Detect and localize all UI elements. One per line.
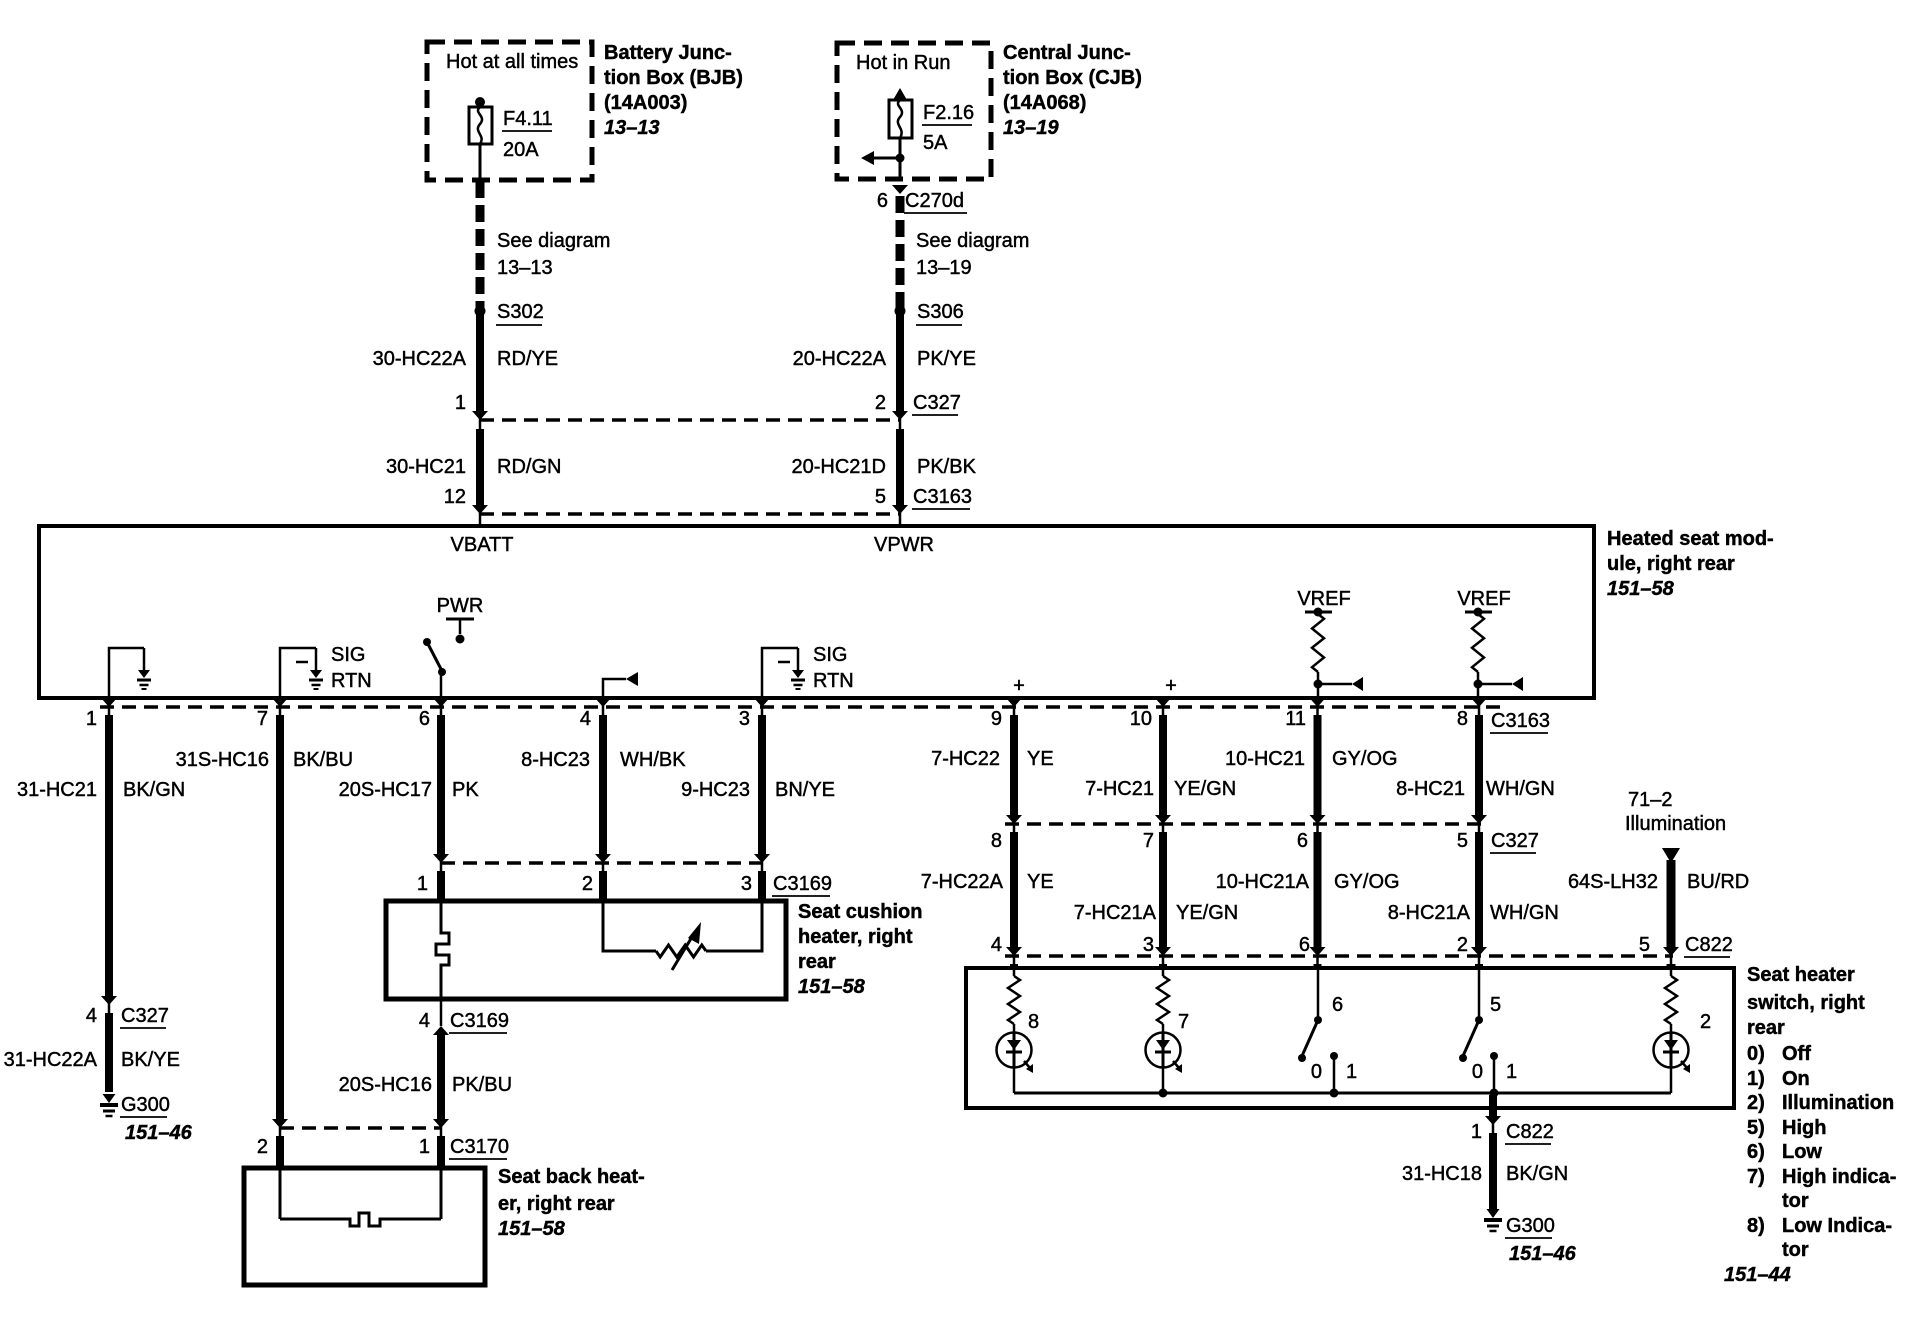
svg-text:6: 6 [1332,994,1343,1016]
svg-text:C3163: C3163 [913,486,972,508]
arrow pin wire into C3163 at x=1479 [1471,698,1487,707]
svg-text:F4.11: F4.11 [503,108,553,130]
wire label 30-HC21 RD/GN [386,456,562,478]
svg-text:VBATT: VBATT [451,534,514,556]
svg-text:13–13: 13–13 [604,117,660,139]
label See diagram 13-13 [497,230,610,279]
svg-text:F2.16: F2.16 [923,102,974,124]
wire label 8-HC21A WH/GN [1388,902,1559,924]
fuse F2.16 top arrow [893,88,907,100]
svg-text:13–13: 13–13 [497,257,553,279]
wire label 7-HC22 YE [931,748,1054,770]
svg-text:Hot at all times: Hot at all times [446,51,578,73]
svg-text:PK: PK [452,779,479,801]
svg-text:31S-HC16: 31S-HC16 [176,749,269,771]
svg-text:0: 0 [1472,1061,1483,1083]
svg-text:1: 1 [419,1136,430,1158]
svg-text:8-HC21A: 8-HC21A [1388,902,1471,924]
wire label 64S-LH32 BU/RD [1568,871,1749,893]
svg-text:VREF: VREF [1297,588,1350,610]
svg-text:Seat heater: Seat heater [1747,964,1855,986]
wire S306 to C327 pin2 [896,311,904,429]
svg-text:Low Indica-: Low Indica- [1782,1215,1892,1237]
wire pin6 module to cushion heater [433,697,449,901]
svg-text:G300: G300 [121,1094,170,1116]
label Seat cushion heater right rear 151-58 [798,901,922,998]
svg-text:PWR: PWR [437,595,484,617]
svg-text:(14A068): (14A068) [1003,92,1086,114]
svg-text:See diagram: See diagram [916,230,1029,252]
label Hot in Run [856,52,951,74]
ground G300 right [1484,1209,1577,1265]
svg-text:20S-HC17: 20S-HC17 [339,779,432,801]
cushion thermistor loop [603,903,762,957]
svg-text:WH/BK: WH/BK [620,749,686,771]
svg-text:6): 6) [1747,1141,1765,1163]
svg-text:Heated seat mod-: Heated seat mod- [1607,528,1774,550]
svg-text:2: 2 [1700,1011,1711,1033]
svg-text:7): 7) [1747,1166,1765,1188]
wire S302 to C327 pin1 [476,311,484,429]
wire label 30-HC22A RD/YE [373,348,559,370]
svg-text:7-HC21: 7-HC21 [1085,778,1154,800]
seat back heater box [244,1168,485,1285]
svg-text:tion Box (CJB): tion Box (CJB) [1003,67,1142,89]
svg-text:31-HC22A: 31-HC22A [4,1049,98,1071]
wire label 31-HC22A BK/YE [4,1049,180,1071]
svg-text:SIG: SIG [813,644,847,666]
label Hot at all times [446,51,578,73]
svg-text:6: 6 [1297,830,1308,852]
module internal SIG RTN at pin 3 [762,644,854,696]
svg-text:BK/GN: BK/GN [1506,1163,1568,1185]
svg-text:12: 12 [444,486,466,508]
svg-text:151–58: 151–58 [798,976,866,998]
svg-text:9: 9 [991,708,1002,730]
wire CJB to S306 dashed thick [896,196,905,308]
svg-text:31-HC21: 31-HC21 [17,779,97,801]
svg-text:2: 2 [257,1136,268,1158]
svg-text:151–46: 151–46 [1509,1243,1577,1265]
wire module pin to switch at x=1479 [1471,697,1487,968]
svg-text:High: High [1782,1117,1826,1139]
svg-text:5: 5 [1457,830,1468,852]
wire label 31-HC18 BK/GN [1402,1163,1568,1185]
connector row C3170 (pins 2/1) [257,1128,509,1159]
wire module pin to switch at x=1317.5 [1310,697,1326,968]
svg-text:WH/GN: WH/GN [1486,778,1555,800]
svg-text:1: 1 [417,873,428,895]
svg-text:YE/GN: YE/GN [1176,902,1238,924]
arrow pin wire into C3163 at x=762 [754,698,770,707]
svg-text:10: 10 [1130,708,1152,730]
wire label 10-HC21A GY/OG [1216,871,1400,893]
svg-text:+: + [1165,675,1177,697]
switch common bus [1014,1089,1671,1098]
svg-text:13–19: 13–19 [916,257,972,279]
svg-text:8: 8 [991,830,1002,852]
wire pin1 module to G300 [101,697,117,1092]
svg-text:RTN: RTN [813,670,854,692]
svg-text:C3163: C3163 [1491,710,1550,732]
svg-text:1): 1) [1747,1068,1765,1090]
svg-text:Illumination: Illumination [1625,813,1726,835]
svg-text:High indica-: High indica- [1782,1166,1896,1188]
svg-text:Seat back heat-: Seat back heat- [498,1166,645,1188]
svg-text:PK/BK: PK/BK [917,456,977,478]
svg-text:+: + [1013,675,1025,697]
svg-text:30-HC21: 30-HC21 [386,456,466,478]
svg-text:151–58: 151–58 [1607,578,1675,600]
switch lamp 2 (illumination) [1654,970,1712,1093]
svg-text:7: 7 [1178,1011,1189,1033]
seat heater switch box [966,968,1734,1108]
svg-text:1: 1 [455,392,466,414]
connector row C3163 (pins 12/5) [444,486,972,514]
svg-text:0): 0) [1747,1043,1765,1065]
svg-text:switch, right: switch, right [1747,992,1865,1014]
svg-text:GY/OG: GY/OG [1334,871,1400,893]
svg-text:S302: S302 [497,301,544,323]
wire label 7-HC21 YE/GN [1085,778,1236,800]
svg-text:2: 2 [1457,934,1468,956]
CJB internal branch arrow left [861,151,905,165]
heated seat module box [39,526,1594,698]
illumination feed wire 64S-LH32 [1662,848,1680,968]
switch contact 6 (low) [1298,970,1357,1093]
wire label 7-HC21A YE/GN [1074,902,1239,924]
label See diagram 13-19 [916,230,1029,279]
svg-text:7-HC22: 7-HC22 [931,748,1000,770]
svg-text:C3169: C3169 [450,1010,509,1032]
svg-text:rear: rear [1747,1017,1785,1039]
connector row C822 (pins 4/3/6/2/5) [991,934,1733,957]
svg-text:er, right rear: er, right rear [498,1193,615,1215]
svg-text:ule, right rear: ule, right rear [1607,553,1735,575]
module pin name VPWR [874,534,934,556]
svg-text:YE: YE [1027,748,1054,770]
module internal plus mark at pin 9 [1013,675,1025,697]
svg-text:See diagram: See diagram [497,230,610,252]
svg-text:30-HC22A: 30-HC22A [373,348,467,370]
wire module pin to switch at x=1163 [1155,697,1171,968]
svg-text:C3169: C3169 [773,873,832,895]
wire label 31-HC21 BK/GN [17,779,185,801]
arrow pin wire into C3163 at x=603 [595,698,611,707]
svg-text:5): 5) [1747,1117,1765,1139]
svg-text:151–44: 151–44 [1724,1264,1791,1286]
svg-text:GY/OG: GY/OG [1332,748,1398,770]
svg-text:7: 7 [1143,830,1154,852]
svg-text:7-HC21A: 7-HC21A [1074,902,1157,924]
svg-text:Illumination: Illumination [1782,1092,1894,1114]
connector row C3163 below module [86,707,1550,733]
svg-text:5A: 5A [923,132,948,154]
wire fuse F2.16 down inside CJB [899,138,902,179]
svg-text:31-HC18: 31-HC18 [1402,1163,1482,1185]
svg-text:8): 8) [1747,1215,1765,1237]
arrow pin wire into C3163 at x=1014 [1006,698,1022,707]
svg-text:tor: tor [1782,1190,1809,1212]
svg-text:1: 1 [1506,1061,1517,1083]
thermistor arrow [672,922,701,970]
svg-text:10-HC21A: 10-HC21A [1216,871,1310,893]
svg-text:2: 2 [582,873,593,895]
svg-text:64S-LH32: 64S-LH32 [1568,871,1658,893]
module internal plus mark at pin 10 [1165,675,1177,697]
svg-text:13–19: 13–19 [1003,117,1059,139]
label Heated seat module right rear 151-58 [1607,528,1774,600]
svg-text:C3170: C3170 [450,1136,509,1158]
svg-text:7-HC22A: 7-HC22A [921,871,1004,893]
wire C327 to C3163 pin5 [896,429,904,526]
svg-text:heater, right: heater, right [798,926,913,948]
arrow pin wire into C3163 at x=1317.5 [1310,698,1326,707]
wire label 8-HC21 WH/GN [1396,778,1555,800]
svg-text:RD/YE: RD/YE [497,348,558,370]
svg-text:Off: Off [1782,1043,1811,1065]
Battery Junction Box dashed enclosure [427,42,592,180]
svg-text:C327: C327 [121,1005,169,1027]
wire label 20-HC21D PK/BK [792,456,977,478]
svg-text:Hot in Run: Hot in Run [856,52,951,74]
svg-text:PK/BU: PK/BU [452,1074,512,1096]
svg-text:tion Box (BJB): tion Box (BJB) [604,67,743,89]
module internal SIG RTN at pin 7 [280,644,372,696]
svg-text:SIG: SIG [331,644,365,666]
module internal ground at pin 1 [109,648,151,696]
svg-text:4: 4 [86,1005,97,1027]
wire label 8-HC23 WH/BK [521,749,686,771]
svg-text:C327: C327 [913,392,961,414]
wire C327 to C3163 pin12 [476,429,484,526]
wire label 10-HC21 GY/OG [1225,748,1398,770]
module internal PWR switch at pin 6 [423,595,483,696]
svg-text:Battery Junc-: Battery Junc- [604,42,732,64]
label Central Junction Box (CJB) (14A068) 13-19 [1003,42,1142,139]
arrow pin wire into C3163 at x=441 [433,698,449,707]
wire pin4 module to cushion heater [595,697,611,901]
svg-text:YE: YE [1027,871,1054,893]
svg-text:BU/RD: BU/RD [1687,871,1749,893]
svg-text:YE/GN: YE/GN [1174,778,1236,800]
svg-text:8: 8 [1028,1011,1039,1033]
svg-text:WH/GN: WH/GN [1490,902,1559,924]
connector 6 C270d label [877,190,967,213]
svg-text:C327: C327 [1491,830,1539,852]
svg-text:1: 1 [1346,1061,1357,1083]
module pin name VBATT [451,534,514,556]
connector row C3169 top (pins 1/2/3) [417,863,832,896]
svg-text:RTN: RTN [331,670,372,692]
connector 4 C3169 below cushion heater [419,1010,509,1033]
svg-text:7: 7 [257,708,268,730]
fuse value label F4.11 / 20A [502,108,553,161]
svg-text:20-HC22A: 20-HC22A [793,348,887,370]
svg-text:BK/GN: BK/GN [123,779,185,801]
switch contact 5 (high) [1459,970,1517,1093]
switch indicator 8 (low) [997,970,1040,1093]
svg-text:On: On [1782,1068,1810,1090]
svg-text:10-HC21: 10-HC21 [1225,748,1305,770]
svg-text:Seat cushion: Seat cushion [798,901,922,923]
svg-text:5: 5 [1639,934,1650,956]
wire module pin to switch at x=1014 [1006,697,1022,968]
ground G300 left [100,1094,193,1144]
svg-text:4: 4 [991,934,1002,956]
svg-text:5: 5 [875,486,886,508]
wire label 20S-HC17 PK [339,779,480,801]
svg-text:C822: C822 [1685,934,1733,956]
splice S302 [475,301,544,325]
wire switch to G300 right [1485,1095,1501,1210]
svg-text:151–46: 151–46 [125,1122,193,1144]
cushion heater element [436,903,449,997]
fuse value label F2.16 / 5A [922,102,974,154]
svg-text:8: 8 [1457,708,1468,730]
connector row C327 right (pins 8/7/6/5) [991,824,1539,853]
svg-text:4: 4 [580,708,591,730]
arrow pin wire into C3163 at x=1163 [1155,698,1171,707]
svg-text:11: 11 [1285,708,1306,730]
arrow pin wire into C3163 at x=280 [272,698,288,707]
fuse F4.11 terminal dot [475,97,485,107]
svg-text:PK/YE: PK/YE [917,348,976,370]
svg-text:0: 0 [1311,1061,1322,1083]
svg-text:5: 5 [1490,994,1501,1016]
wire fuse F4.11 to BJB edge [479,144,482,181]
svg-text:VREF: VREF [1457,588,1510,610]
svg-text:rear: rear [798,951,836,973]
svg-text:6: 6 [877,190,888,212]
fuse F2.16 body [889,100,912,138]
module internal VREF resistor 1 [1297,588,1363,696]
svg-text:20-HC21D: 20-HC21D [792,456,886,478]
wire label 20S-HC16 PK/BU [339,1074,512,1096]
connector 1 C822 label [1471,1121,1554,1144]
wire label 20-HC22A PK/YE [793,348,976,370]
svg-text:8-HC23: 8-HC23 [521,749,590,771]
svg-text:6: 6 [1299,934,1310,956]
svg-text:S306: S306 [917,301,964,323]
svg-text:3: 3 [739,708,750,730]
arrow pin wire into C3163 at x=109 [101,698,117,707]
label Battery Junction Box (BJB) (14A003) 13-13 [604,42,743,139]
connector 4 C327 label left [86,1005,169,1028]
wire pin3 module to cushion heater [754,697,770,901]
svg-text:9-HC23: 9-HC23 [681,779,750,801]
wire label 9-HC23 BN/YE [681,779,835,801]
svg-text:BN/YE: BN/YE [775,779,835,801]
label Seat heater switch right rear + legend [1724,964,1896,1286]
wire cushion heater to C3170 [433,999,449,1168]
wire BJB to S302 dashed thick [476,181,485,308]
svg-text:BK/BU: BK/BU [293,749,353,771]
svg-text:151–58: 151–58 [498,1218,566,1240]
wire label 7-HC22A YE [921,871,1054,893]
seat cushion heater box [386,901,786,999]
svg-text:1: 1 [1471,1121,1482,1143]
svg-text:6: 6 [419,708,430,730]
svg-text:4: 4 [419,1010,430,1032]
svg-text:3: 3 [1143,934,1154,956]
svg-text:2): 2) [1747,1092,1765,1114]
svg-text:1: 1 [86,708,97,730]
label 71-2 Illumination [1625,789,1726,835]
splice S306 [895,301,964,325]
svg-text:VPWR: VPWR [874,534,934,556]
label Seat back heater right rear 151-58 [498,1166,645,1240]
module internal output arrow at pin 4 [603,672,638,696]
svg-text:2: 2 [875,392,886,414]
svg-text:BK/YE: BK/YE [121,1049,180,1071]
svg-text:C270d: C270d [905,190,964,212]
svg-text:tor: tor [1782,1239,1809,1261]
svg-text:20S-HC16: 20S-HC16 [339,1074,432,1096]
switch indicator 7 (high) [1146,970,1190,1093]
svg-text:RD/GN: RD/GN [497,456,561,478]
svg-text:C822: C822 [1506,1121,1554,1143]
svg-text:Low: Low [1782,1141,1822,1163]
fuse F4.11 body [469,107,492,144]
svg-text:Central Junc-: Central Junc- [1003,42,1131,64]
arrow into C270d [892,185,908,194]
svg-text:(14A003): (14A003) [604,92,687,114]
module internal VREF resistor 2 [1457,588,1523,696]
svg-text:20A: 20A [503,139,539,161]
svg-text:3: 3 [741,873,752,895]
Central Junction Box dashed enclosure [837,43,991,179]
svg-text:71–2: 71–2 [1628,789,1673,811]
wire label 31S-HC16 BK/BU [176,749,353,771]
svg-text:8-HC21: 8-HC21 [1396,778,1465,800]
seat back heater element [280,1170,441,1226]
svg-text:G300: G300 [1506,1215,1555,1237]
wire pin7 module to C3170 [272,697,288,1168]
connector row C327 (pins 1/2) [455,392,961,420]
